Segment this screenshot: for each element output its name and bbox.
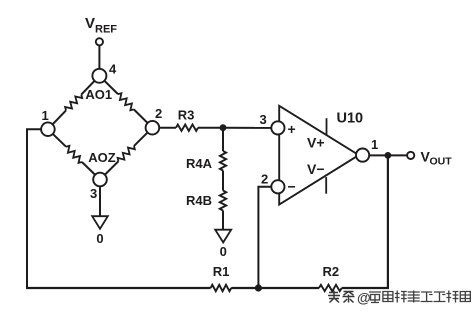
resistor R4A: [186, 128, 226, 171]
svg-text:0: 0: [96, 231, 103, 246]
node 2: [146, 106, 163, 135]
wire output junction down to bottom wire: [387, 155, 389, 288]
resistor R2: [319, 264, 342, 291]
ground 0 (bridge): [92, 216, 108, 246]
wire node 1 to bottom loop: [27, 129, 41, 288]
resistor R4B: [186, 171, 226, 230]
node 3: [90, 173, 107, 201]
svg-text:R4B: R4B: [186, 193, 212, 208]
bottom wire right segment: [342, 287, 389, 289]
svg-text:1: 1: [42, 108, 49, 123]
wire VREF to node 4: [98, 45, 100, 69]
terminal VOUT: [407, 149, 452, 168]
svg-text:R1: R1: [213, 264, 230, 279]
svg-text:AO1: AO1: [85, 87, 112, 102]
terminal VREF: [85, 15, 117, 45]
wire junction to op-amp pin 3: [223, 127, 271, 129]
junction node R1/R2: [255, 284, 262, 291]
svg-text:AOZ: AOZ: [88, 150, 116, 165]
svg-text:1: 1: [371, 137, 378, 152]
resistor R1: [211, 264, 232, 291]
svg-text:V+: V+: [307, 134, 325, 150]
junction node output: [385, 152, 392, 159]
junction node R3/R4A: [220, 124, 227, 131]
svg-text:V: V: [85, 15, 95, 32]
node 4: [92, 62, 117, 83]
op-amp pin 3 (+): [260, 112, 296, 137]
ground 0 (under R4B): [215, 230, 231, 259]
op-amp U10: [279, 106, 363, 205]
op-amp pin 2 (-): [261, 172, 296, 195]
wire output to VOUT: [369, 154, 407, 156]
bottom wire left segment: [26, 287, 211, 289]
svg-text:REF: REF: [95, 24, 117, 36]
op-amp output pin 1: [356, 137, 378, 162]
node 1: [41, 108, 55, 136]
resistor R3: [159, 108, 223, 131]
bridge resistor arm AO1 (node1-node4): [48, 76, 100, 129]
svg-text:0: 0: [220, 244, 227, 259]
svg-text:2: 2: [261, 172, 268, 187]
svg-text:V−: V−: [307, 161, 325, 177]
svg-text:3: 3: [260, 112, 267, 127]
svg-text:R3: R3: [178, 108, 195, 123]
svg-text:OUT: OUT: [430, 156, 453, 168]
svg-text:+: +: [288, 121, 296, 137]
svg-text:R4A: R4A: [186, 156, 213, 171]
svg-text:U10: U10: [337, 111, 364, 127]
svg-text:@: @: [357, 290, 371, 306]
svg-text:R2: R2: [322, 264, 339, 279]
bridge resistor arm (node4-node2): [99, 76, 152, 128]
bottom wire middle segment: [231, 287, 319, 289]
wire node 3 to ground: [99, 186, 101, 216]
wire junction up to op-amp pin 2: [258, 187, 271, 288]
svg-text:−: −: [288, 179, 296, 195]
svg-text:2: 2: [155, 106, 162, 121]
bridge resistor arm (node3-node2): [100, 128, 152, 180]
svg-text:3: 3: [90, 186, 97, 201]
bridge resistor arm AOZ (node1-node3): [48, 129, 100, 179]
watermark 头条@芯奥斯电子工程师: [328, 290, 470, 306]
svg-text:4: 4: [109, 62, 117, 77]
